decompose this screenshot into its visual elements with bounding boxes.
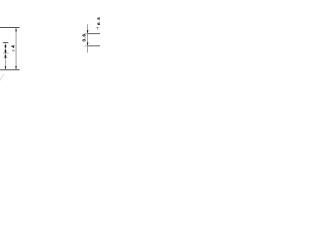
svg-text:3: 3 bbox=[11, 49, 15, 51]
dimension line 34 bbox=[15, 28, 17, 70]
tick A bbox=[3, 42, 9, 44]
tick C bbox=[3, 57, 8, 59]
right edge line 2 stub bbox=[85, 45, 88, 47]
svg-text:6.3: 6.3 bbox=[96, 17, 100, 25]
arrow down 1 bbox=[87, 30, 89, 33]
arrow blob 4 bbox=[5, 66, 7, 69]
wire top edge left part bbox=[0, 27, 20, 29]
right edge line 1 stub bbox=[84, 33, 87, 35]
arrow up bbox=[15, 28, 17, 31]
arrow down bbox=[15, 66, 17, 69]
arrow down 2 bbox=[87, 43, 89, 46]
right edge line 2 bbox=[88, 45, 100, 47]
right edge line 1 bbox=[88, 33, 100, 35]
chain dimension line bbox=[4, 43, 6, 70]
svg-text:0.6: 0.6 bbox=[82, 34, 87, 42]
arrow blob 2 bbox=[5, 50, 7, 53]
arrow blob 1 bbox=[5, 45, 7, 48]
tick B bbox=[3, 52, 9, 54]
right detail dimension line bbox=[87, 24, 89, 52]
svg-text:4: 4 bbox=[11, 45, 16, 48]
roughness check mark bbox=[96, 27, 99, 29]
wire bottom edge left part bbox=[0, 69, 20, 71]
arrow blob 3 bbox=[5, 55, 7, 58]
hatch diagonal bbox=[0, 74, 4, 81]
